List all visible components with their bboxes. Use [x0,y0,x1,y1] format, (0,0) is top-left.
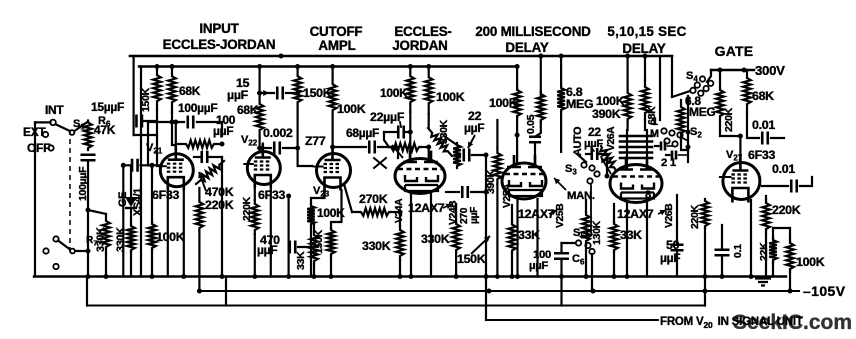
svg-text:330K: 330K [95,227,107,252]
resistor 390K v24 [494,148,502,184]
arrow 15uuF b [257,92,269,94]
svg-text:12AX7: 12AX7 [617,207,654,221]
wire V25 pin L [516,199,518,277]
wire bottom line y305 [87,305,705,307]
node 15b L [257,91,262,96]
wire 100K v27 dn [789,272,791,291]
arrow 12AX7 v26 [658,210,666,214]
wire 6.8MEG dn [560,112,562,152]
wire 270K L [344,184,352,212]
wire 22uuF mid L [384,131,396,133]
node gnd 517 [515,274,520,279]
node v26 grid [605,174,610,179]
tube V27 6F33 [723,163,760,200]
node B2 259 [257,64,262,69]
tube V25 12AX7 [502,163,546,199]
dashed gang link [69,130,71,252]
wire 150K down [156,110,158,165]
svg-text:68K: 68K [752,89,774,103]
node gnd 106 [104,274,109,279]
terminal S1 [70,130,75,135]
wire 130K dn [585,244,587,277]
resistor 68K [168,67,176,113]
svg-text:300V: 300V [755,63,785,78]
wire B2 left drop [140,67,142,277]
svg-text:330K: 330K [115,227,127,252]
node B2 68K [170,64,175,69]
resistor 68K v27 [743,70,751,112]
wire 220k to plate [720,135,740,137]
wire 390K dn [496,184,498,277]
svg-text:µµF: µµF [257,243,277,257]
node 68K row dot [170,120,175,125]
wire 220K down [198,230,200,291]
wire B1 drop 541 [540,57,542,96]
wire drop 628 [626,57,628,90]
svg-text:OFF: OFF [27,141,50,155]
wire V21 cathode R [183,188,185,277]
node gnd 400 [398,274,403,279]
wire EXT down [34,122,36,276]
svg-text:µµF: µµF [529,260,548,272]
wire V22 plate up [262,144,264,152]
node gnd 184 [181,274,186,279]
wire v23 plate right [333,146,366,148]
svg-text:Z77: Z77 [305,134,326,148]
svg-text:–105V: –105V [803,283,846,299]
wire 330K v24b dn [455,252,457,277]
resistor 100K v23b [307,204,315,226]
arrow 150K wiper [471,236,490,254]
resistor 33K v25 [508,222,516,253]
capacitor 100uuF a [188,116,194,129]
node 300V dot1 [718,68,723,73]
coupling resistor h 144 [178,140,222,148]
wire 50uuF dn [676,252,678,277]
resistor 33K mid [310,232,318,264]
switch S4 contacts [700,76,705,81]
wire diode col up [130,165,132,197]
svg-text:ECCLES-: ECCLES- [394,24,451,39]
resistor 220K c [762,200,770,232]
svg-text:MEG: MEG [566,97,593,111]
capacitor 50uuF [671,245,684,251]
wire R7 down [105,254,107,277]
arrow 470K wiper [199,172,206,191]
arrow 22uuF v24 [468,135,475,148]
svg-text:100K: 100K [489,96,518,110]
svg-text:100K: 100K [436,90,465,104]
wire V24 pin L [410,192,412,277]
wire 330K v24b up [455,204,457,222]
wire B1 drop 561 [560,57,562,86]
arrow 12AX7 v24 [443,204,452,208]
wire 33K v26 up [613,204,615,222]
node v27 plate [738,134,743,139]
wire 150K v23 down [297,112,299,148]
wire 628 dn [626,122,628,130]
svg-text:6F33: 6F33 [748,148,775,162]
wire 150K v23b dn [330,256,332,277]
wire under cap [87,161,89,277]
node gnd 722 [720,274,725,279]
wire 0.002 L [260,147,271,149]
svg-text:100K: 100K [380,86,408,100]
capacitor C6 [554,253,569,259]
resistor 130K [582,212,590,244]
node B1 dot 281 [279,54,284,59]
terminal EXT [43,132,48,137]
resistor 100K v27 [786,240,794,272]
node gnd 331 [329,274,334,279]
resistor 330K v24b [452,222,460,252]
wire 0.05 joins [535,122,541,137]
capacitor 100uuF input [132,159,138,172]
capacitor 22uuF mid [398,126,404,139]
wire 470uuF R [298,246,314,248]
svg-text:68K: 68K [237,103,259,117]
wire 220K b dn [704,228,706,306]
node 688 dots [686,97,691,102]
node B2 517 [515,64,520,69]
capacitor cross 157 [202,151,208,163]
node x486 155 [484,153,489,158]
wire 100uuF row R [197,122,222,136]
wire v24 plate R [428,114,430,128]
wire 100K v25 dn [516,116,518,164]
resistor small v24b [453,143,461,168]
wire 0.01b L [762,185,788,187]
node x288 top [286,194,291,199]
wire cross R [209,156,222,158]
resistor 68K v26 [641,80,649,120]
svg-text:0.01: 0.01 [772,162,795,176]
svg-text:200 MILLISECOND: 200 MILLISECOND [475,24,591,39]
node R7 link [86,208,91,213]
wire R7 link [88,210,106,214]
node B1 dot 561 [559,54,564,59]
resistor R6 47K [84,121,92,151]
wire x222 drop [221,157,223,277]
wire 68K to plate [172,112,176,145]
wire V26 plate pin R [646,130,648,168]
node gnd 88 [86,274,91,279]
capacitor 0.1 [715,250,730,256]
node gnd 512 [510,274,515,279]
tube V22 6F33 [247,152,280,185]
svg-text:270K: 270K [359,192,388,206]
svg-text:MEG: MEG [689,105,715,119]
svg-text:GE: GE [117,192,129,207]
node C6 bus [559,274,564,279]
svg-text:µµF: µµF [213,124,233,138]
resistor 100K v23 [329,67,337,129]
svg-text:68K: 68K [179,84,201,98]
capacitor 0.01 b [791,180,797,193]
switch pole2 contacts [53,236,58,241]
svg-text:100µµF: 100µµF [178,101,217,115]
wire diag v24b [444,136,457,145]
node V21 plate dot [173,120,178,125]
svg-text:8: 8 [645,189,651,201]
resistor 6.8MEG [557,86,565,112]
node B2 297 [295,64,300,69]
svg-text:330K: 330K [421,232,450,246]
node B2 332 [330,64,335,69]
wire V21 plate up [175,122,177,146]
node gnd 456 [454,274,459,279]
wire 220K v22 down [254,234,256,277]
wire MAN to S5 [590,185,592,231]
wire x259 drop [259,67,261,97]
wire 0.01a L [747,112,759,138]
svg-text:µµF: µµF [227,88,249,102]
cross X [374,158,386,168]
wire 300V rail [711,69,754,71]
switch S2 contacts [661,128,666,133]
wire 220K c net [765,196,767,200]
wire 22uuF mid drop [384,132,389,147]
svg-text:2 1: 2 1 [661,157,676,169]
arrow 390K wiper [601,157,611,174]
resistor 22K [769,238,777,262]
node gnd 222 [220,274,225,279]
wire B1 left drop [133,56,135,135]
wire 150K v23b up [331,190,342,228]
resistor 100K v24 [425,67,433,115]
wire cap to V21 [141,164,161,166]
svg-text:INT: INT [45,103,64,117]
resistor 100K v25c [537,92,545,122]
resistor 470K diag [196,161,224,184]
svg-text:390K: 390K [592,107,621,121]
wire 0.01b R [800,177,812,186]
resistor 100K v21 [148,222,156,250]
node gnd 751 [749,274,754,279]
wire S2 arm [681,137,688,141]
wire 100uuF row L [148,121,184,123]
wire 22uuF v25 arrow [591,147,594,151]
wire v27 plate up [739,136,741,154]
wire v23 cath a [311,190,325,204]
node -105 dot 489 [487,289,492,294]
node -105 dot 593 [591,289,596,294]
svg-text:33K: 33K [620,228,642,242]
wire 33K v26 dn [613,252,615,277]
wire C6 dn [560,259,562,306]
svg-text:6F33: 6F33 [152,188,179,202]
switch S4 arm [672,91,690,97]
wire 15b plates R [286,92,298,94]
wire -105V line [199,290,799,292]
svg-text:V26B: V26B [664,204,675,228]
svg-text:SeekIC.com: SeekIC.com [733,311,852,334]
svg-text:470K: 470K [205,185,234,199]
wire x123 down [122,165,124,276]
node pole2 [86,249,91,254]
resistor 100K v25 [513,88,521,118]
wire 228 row [773,227,790,229]
wire 22uuF L [457,154,460,156]
wire 0.01a R [771,137,784,139]
node v23 grid knot [295,146,300,151]
capacitor 15uuF [136,115,142,128]
wire FROM line [486,319,658,321]
svg-text:0.1: 0.1 [732,244,744,258]
svg-text:100K: 100K [796,255,825,269]
wire 688 drop [687,96,689,162]
svg-text:0.01: 0.01 [752,118,775,132]
svg-text:µµF: µµF [464,121,484,135]
svg-text:220K: 220K [689,204,701,229]
svg-text:XS4/1: XS4/1 [132,188,144,216]
resistor R7 330K [102,214,110,254]
svg-text:0.002: 0.002 [263,126,293,140]
svg-text:ECCLES-JORDAN: ECCLES-JORDAN [163,37,276,52]
node -105 199 [197,289,202,294]
wire INT in [35,121,51,123]
wire ground bus [34,275,786,277]
svg-text:V24B: V24B [448,201,459,225]
resistor 330K v24a [396,226,404,260]
resistor 33K v26 [610,222,618,252]
node gnd 288 [286,274,291,279]
svg-text:47K: 47K [94,123,116,137]
resistor 100K v26 [624,90,632,122]
tube V21 6F33 [160,154,193,187]
wire v24 grid drop [428,147,430,161]
wire top bus B1 [130,55,672,58]
node gnd 411 [409,274,414,279]
switch S5 contacts [586,231,591,236]
resistor 220K v22 [251,200,259,234]
svg-text:µµF: µµF [469,207,480,224]
resistor 220K v27 [716,70,724,136]
node row 152 [150,163,155,168]
node gnd 314 [312,274,317,279]
wire x288 drop [288,196,290,277]
node -105 dot 705 [703,289,708,294]
node v23 plate [330,145,335,150]
wire 22b R [598,154,608,176]
capacitor 0.05 [529,137,541,143]
tube V23 Z77 [317,154,351,188]
wire 100K v23 down [332,128,334,152]
resistor 100K v24L [407,67,415,113]
wire 100K v27 up [789,228,791,240]
capacitor 22uuF v24 [464,149,470,162]
resistor 150K [153,67,161,111]
wire V26 pin R [646,202,648,277]
node knot 222 [220,142,225,147]
svg-text:15µµF: 15µµF [91,100,124,114]
wire diode col down [130,252,132,277]
node gnd 586 [584,274,589,279]
capacitor 22uuF v25 [592,148,598,160]
wire stub x87 [86,277,88,306]
svg-text:100K: 100K [337,102,366,116]
diode GE XS4/1 [125,197,137,207]
capacitor 68uuF [369,141,375,154]
capacitor 470uuF [290,241,296,254]
wire 68uuF R [378,147,398,158]
node 517 135 [515,133,520,138]
wire 22K dn [772,262,774,277]
wire C6 top row [562,242,576,244]
wire cross L [194,156,200,158]
capacitor small a [661,142,665,151]
node 15b R [295,91,300,96]
wire pot to tube [421,146,429,148]
resistor 6.8MEG 2 [677,100,685,140]
svg-text:M: M [650,128,659,140]
wire stub x226 [225,277,227,306]
svg-text:12AX7: 12AX7 [408,201,445,215]
wire 390K up [496,120,498,148]
svg-text:220K: 220K [772,203,801,217]
tube V24 12AX7 [395,159,445,194]
arrow 12AX7 v25 [549,210,557,214]
wire v23 cath a dn [310,226,312,277]
node 705 bus [703,274,708,279]
wire pole2 out [75,250,88,252]
node gnd 614 [612,274,617,279]
wire V24 pin R [430,192,432,277]
wire left knot [147,122,149,165]
terminal INT [50,120,56,126]
svg-text:68µµF: 68µµF [346,126,379,140]
resistor pot h v24 [389,143,421,151]
wire FROM drop [485,155,487,320]
wire V22 cathode R [270,186,272,277]
svg-text:DELAY: DELAY [505,40,548,55]
resistor 220K v21 [196,200,204,230]
svg-text:220K: 220K [205,198,234,212]
arrow pot v24 [392,145,403,158]
svg-text:150K: 150K [140,87,152,112]
svg-text:220K: 220K [723,107,735,132]
svg-text:V25B: V25B [555,204,566,228]
capacitor 0.002 [274,142,280,155]
node row 123 [121,163,126,168]
terminal OFF [48,145,53,150]
wire S4 to rail [707,70,711,82]
resistor 330K diag v24 [428,128,452,156]
wire 33K v25 up [511,205,513,222]
svg-text:INPUT: INPUT [199,21,239,36]
node B1 dot 541 [538,54,543,59]
resistor 150K v23 [294,67,302,113]
wire 330K v24a dn [399,260,401,277]
svg-text:100K: 100K [156,230,185,244]
capacitor 270uuF [462,186,468,198]
svg-text:1: 1 [652,116,658,128]
wire V26 pin L [626,202,628,277]
wire 6.8MEG2 bot [681,140,688,150]
svg-text:AMPL: AMPL [318,38,355,53]
switch S3 arm [577,154,586,162]
node x259 148 [257,146,262,151]
node B2 150K [155,64,160,69]
node B1 dot 628 [625,54,630,59]
wire 22uuF R [472,154,486,156]
resistor 270K h [352,208,398,216]
node gnd 152 [150,274,155,279]
wire V23 grid lead [298,148,312,166]
wire grid row [123,164,129,166]
resistor 150K v23b [327,228,335,256]
wire 130K up [585,200,587,212]
